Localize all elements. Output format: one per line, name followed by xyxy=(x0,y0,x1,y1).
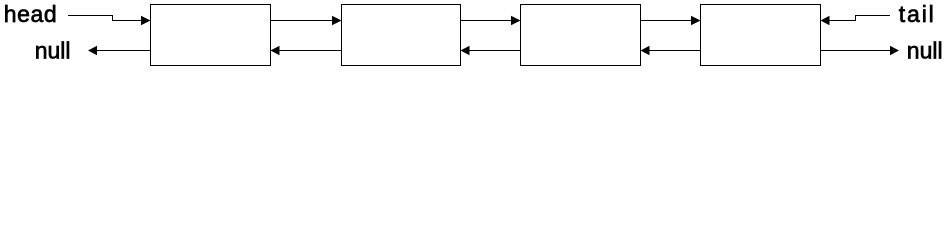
svg-text:null: null xyxy=(35,38,71,64)
svg-text:null: null xyxy=(907,38,943,64)
svg-text:tail: tail xyxy=(899,1,934,27)
svg-text:head: head xyxy=(4,1,57,27)
